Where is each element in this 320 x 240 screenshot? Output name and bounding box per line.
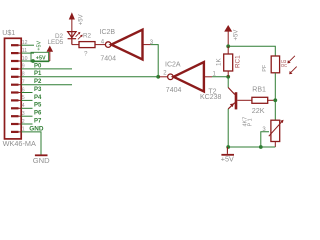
svg-text:P2: P2 [34, 79, 42, 85]
svg-text:P1: P1 [247, 117, 253, 127]
svg-text:U$1: U$1 [2, 30, 15, 37]
svg-text:+5V: +5V [36, 56, 46, 62]
wire P1 (to IC2A) [21, 76, 159, 78]
photoresistor light arrows [287, 56, 296, 74]
photoresistor LDR box [271, 56, 279, 73]
supply +5V arrow (top right) [224, 25, 232, 46]
svg-text:P4: P4 [34, 95, 42, 101]
svg-text:+5V: +5V [36, 40, 42, 50]
pin 10 stub bar [11, 60, 19, 62]
IC2A red input pin [159, 76, 167, 78]
svg-text:KC238: KC238 [200, 94, 222, 101]
LED D2 symbol [68, 31, 77, 44]
resistor RB1 box [252, 97, 268, 103]
svg-text:LED5: LED5 [48, 39, 64, 46]
wire pot wiper loop [261, 132, 269, 147]
pin 9 stub bar [11, 68, 19, 70]
net label +5V frame [31, 52, 49, 61]
transistor T2 base bar [235, 92, 238, 109]
pin 2 stub bar [11, 123, 19, 125]
resistor RC1 pin top [227, 46, 229, 54]
svg-text:PF: PF [262, 64, 268, 72]
junction dot base divider node [273, 98, 277, 102]
pin 6 stub bar [11, 91, 19, 93]
svg-text:+5V: +5V [79, 14, 85, 25]
supply +5V arrow (near connector) [47, 46, 54, 62]
svg-text:R2: R2 [83, 32, 92, 39]
resistor R2 box [79, 42, 95, 48]
pin 4 stub bar [11, 107, 19, 109]
svg-text:IC2B: IC2B [100, 29, 116, 36]
wire IC2A pin1 to node [212, 76, 228, 78]
inverter IC2B triangle [111, 30, 142, 60]
junction dot +5V node [226, 44, 230, 48]
pin 3 stub bar [11, 115, 19, 117]
transistor T2 collector diagonal [228, 88, 235, 95]
wire GND pin1 [21, 132, 41, 155]
wire pot bottom pin [274, 142, 276, 148]
resistor RC1 box [224, 54, 233, 71]
resistor RC1 pin bottom [227, 71, 229, 77]
wire LED to R2 [72, 44, 79, 46]
wire IC2B pin3 to P1 net [151, 45, 159, 77]
wire pin11 +5V stub [21, 52, 34, 54]
pin 8 stub bar [11, 76, 19, 78]
pin 12 stub bar [11, 44, 19, 46]
svg-text:GND: GND [33, 156, 50, 165]
svg-text:RB1: RB1 [252, 87, 266, 94]
svg-text:P1: P1 [34, 71, 42, 77]
wire node to T2 collector [227, 77, 229, 88]
inverter IC2A bubble [168, 74, 174, 80]
IC2B pin 3 red pin [143, 44, 151, 46]
LED D2 emission arrows [76, 32, 83, 40]
wire P0 [21, 68, 72, 70]
svg-text:7404: 7404 [166, 87, 182, 94]
inverter IC2A triangle [174, 62, 204, 91]
ground symbol bar [35, 154, 48, 156]
pin wire R2 to IC2B pin4 [95, 44, 105, 46]
svg-text:P5: P5 [34, 103, 42, 109]
pin 7 stub bar [11, 84, 19, 86]
wire P3 stub [21, 92, 32, 94]
svg-text:IC2A: IC2A [165, 62, 181, 69]
supply +5V arrow above LED D2 [69, 12, 75, 31]
wire pin10 +5V [21, 60, 50, 62]
svg-text:P0: P0 [34, 63, 42, 69]
svg-text:22K: 22K [252, 106, 265, 115]
inverter IC2B bubble [105, 42, 111, 48]
svg-text:P6: P6 [34, 111, 42, 117]
svg-text:?: ? [84, 50, 88, 57]
junction dot pin10 [31, 59, 35, 63]
junction dot rail left [226, 145, 230, 149]
svg-text:7404: 7404 [100, 56, 116, 63]
svg-text:GND: GND [29, 125, 44, 132]
wire T2 base to RB1 [237, 99, 252, 101]
wire P2 [21, 84, 72, 86]
pin 5 stub bar [11, 99, 19, 101]
wire pin12 +5V stub [21, 44, 34, 46]
pin 11 stub bar [11, 52, 19, 54]
wire P4 stub [21, 99, 32, 101]
svg-text:+5V: +5V [221, 155, 234, 164]
svg-text:P7: P7 [34, 118, 42, 124]
svg-text:WK46-MA: WK46-MA [3, 139, 36, 148]
svg-text:RC1: RC1 [234, 55, 241, 68]
bottom +5V rail wire [228, 146, 275, 148]
wire LDR bottom to node [274, 73, 276, 120]
potentiometer P1 box [271, 120, 280, 141]
resistor RB1 right pin [268, 99, 276, 101]
junction dot P1/IC2B [156, 75, 160, 79]
potentiometer wiper arrow [269, 120, 284, 137]
svg-text:1K: 1K [216, 57, 223, 66]
connector U$1 box [5, 38, 22, 139]
svg-text:P3: P3 [34, 87, 42, 93]
wire T2 emitter to bottom rail [227, 109, 229, 147]
wire +5V node to LDR [228, 46, 275, 56]
transistor T2 emitter diagonal with arrow [228, 103, 235, 109]
junction dot rail right [259, 145, 263, 149]
IC2A pin 1 red pin [204, 76, 212, 78]
supply +5V bar symbol (bottom) [226, 147, 228, 154]
pin 1 stub bar [11, 131, 19, 133]
wire P6 stub [21, 115, 32, 117]
wire P7 stub [21, 123, 32, 125]
junction dot collector node [226, 75, 230, 79]
svg-text:+5V: +5V [234, 30, 240, 41]
svg-text:OC: OC [281, 63, 287, 68]
wire P5 stub [21, 107, 32, 109]
